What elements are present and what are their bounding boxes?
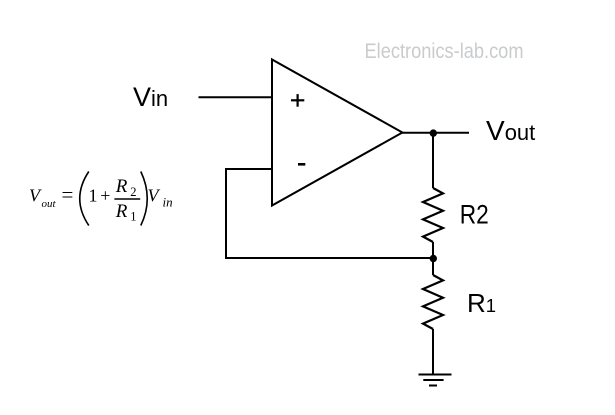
svg-text:R: R [115, 201, 128, 222]
svg-text:Electronics-lab.com: Electronics-lab.com [365, 40, 524, 63]
svg-text:1: 1 [89, 186, 98, 206]
svg-text:=: = [62, 183, 74, 207]
wire R1 to ground [432, 329, 434, 375]
wire non-inverting input [199, 96, 273, 98]
svg-text:2: 2 [130, 185, 136, 199]
wire R2 to node [432, 242, 434, 258]
wire inverting input [226, 168, 272, 170]
wire output [401, 132, 469, 134]
wire feedback bottom [226, 257, 433, 259]
svg-text:out: out [42, 198, 57, 210]
formula fraction bar [114, 198, 140, 200]
wire feedback vertical left [225, 168, 227, 259]
wire node to R1 [432, 258, 434, 275]
node output junction [430, 129, 437, 136]
formula open paren [80, 172, 89, 226]
resistor R2 [423, 188, 443, 242]
formula Vout = (1 + R2/R1)Vin [29, 172, 173, 226]
op-amp U1 [272, 60, 402, 206]
resistor R1 [423, 275, 443, 329]
svg-text:Vin: Vin [133, 82, 168, 112]
formula close paren [141, 172, 147, 226]
ground [419, 375, 452, 386]
svg-text:R2: R2 [460, 199, 489, 229]
svg-text:R: R [115, 176, 128, 197]
svg-text:+: + [100, 186, 110, 206]
svg-text:Vout: Vout [486, 115, 535, 146]
node feedback junction [430, 255, 437, 262]
wire output to R2 [432, 133, 434, 189]
svg-text:1: 1 [130, 209, 136, 223]
svg-text:in: in [163, 195, 173, 210]
